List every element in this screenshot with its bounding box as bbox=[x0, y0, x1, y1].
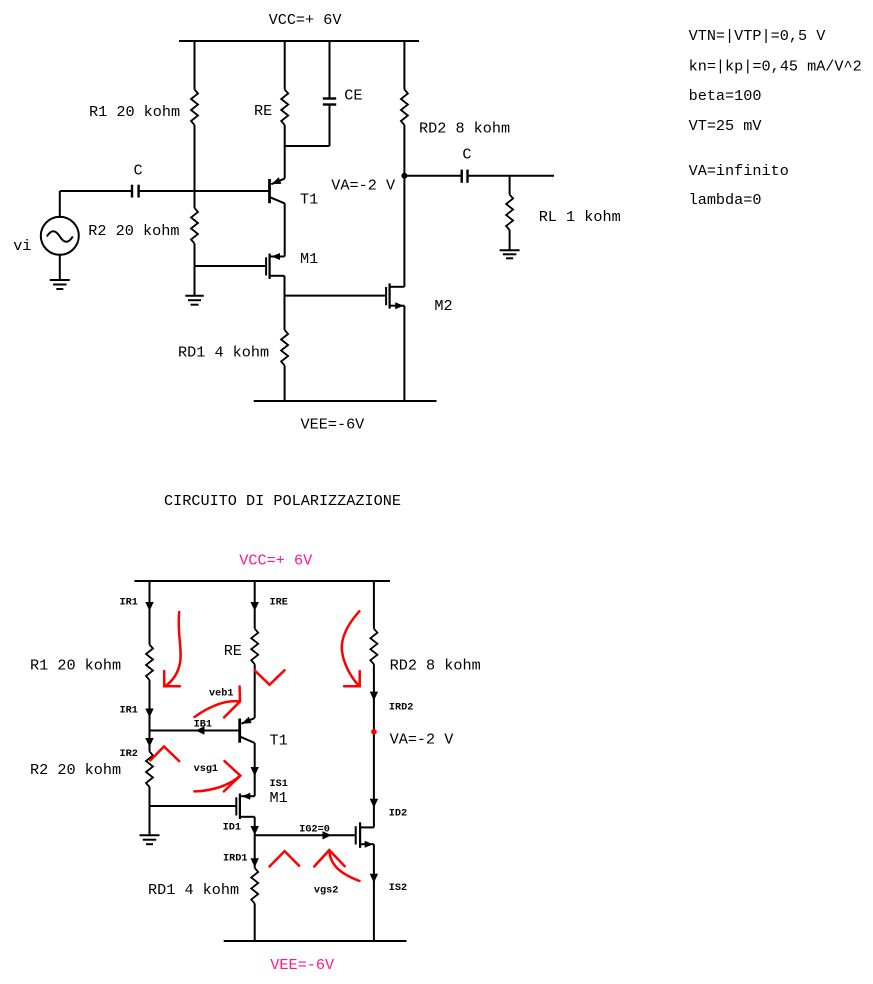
svg-text:VCC=+ 6V: VCC=+ 6V bbox=[269, 11, 343, 29]
svg-text:IS2: IS2 bbox=[389, 883, 407, 894]
svg-text:C: C bbox=[462, 146, 471, 164]
svg-text:IB1: IB1 bbox=[194, 720, 212, 731]
svg-text:VA=-2 V: VA=-2 V bbox=[331, 177, 396, 195]
svg-text:R1 20 kohm: R1 20 kohm bbox=[30, 657, 121, 675]
svg-text:ID1: ID1 bbox=[223, 823, 241, 834]
svg-text:M1: M1 bbox=[300, 250, 318, 268]
svg-text:IR1: IR1 bbox=[120, 598, 138, 609]
svg-text:VEE=-6V: VEE=-6V bbox=[270, 956, 335, 974]
svg-text:CE: CE bbox=[344, 87, 362, 105]
svg-text:VEE=-6V: VEE=-6V bbox=[301, 416, 366, 434]
svg-text:IG2=0: IG2=0 bbox=[299, 824, 330, 835]
svg-text:IR1: IR1 bbox=[120, 706, 138, 717]
svg-text:kn=|kp|=0,45 mA/V^2: kn=|kp|=0,45 mA/V^2 bbox=[689, 58, 862, 76]
svg-text:VT=25 mV: VT=25 mV bbox=[689, 117, 763, 135]
svg-text:IRE: IRE bbox=[270, 598, 288, 609]
svg-text:IRD1: IRD1 bbox=[223, 854, 247, 865]
svg-text:M1: M1 bbox=[270, 789, 288, 807]
svg-text:beta=100: beta=100 bbox=[689, 87, 762, 105]
svg-text:ID2: ID2 bbox=[389, 809, 407, 820]
svg-text:IR2: IR2 bbox=[120, 749, 138, 760]
svg-text:C: C bbox=[134, 162, 143, 180]
svg-text:IRD2: IRD2 bbox=[389, 703, 413, 714]
svg-text:RE: RE bbox=[224, 642, 242, 660]
svg-text:R1 20 kohm: R1 20 kohm bbox=[89, 103, 180, 121]
svg-text:T1: T1 bbox=[300, 191, 318, 209]
svg-text:R2 20 kohm: R2 20 kohm bbox=[88, 222, 179, 240]
svg-text:VCC=+ 6V: VCC=+ 6V bbox=[239, 552, 313, 570]
svg-text:RD1 4 kohm: RD1 4 kohm bbox=[178, 344, 269, 362]
svg-text:T1: T1 bbox=[270, 732, 288, 750]
svg-text:M2: M2 bbox=[434, 297, 452, 315]
svg-text:R2 20 kohm: R2 20 kohm bbox=[30, 761, 121, 779]
svg-text:RD1 4 kohm: RD1 4 kohm bbox=[148, 881, 239, 899]
svg-text:RD2 8 kohm: RD2 8 kohm bbox=[419, 120, 510, 138]
svg-text:VA=infinito: VA=infinito bbox=[689, 162, 789, 180]
svg-text:RL 1 kohm: RL 1 kohm bbox=[539, 208, 621, 226]
svg-text:VTN=|VTP|=0,5 V: VTN=|VTP|=0,5 V bbox=[689, 27, 827, 45]
svg-text:veb1: veb1 bbox=[209, 688, 233, 700]
svg-text:vgs2: vgs2 bbox=[314, 886, 338, 897]
svg-text:VA=-2 V: VA=-2 V bbox=[390, 731, 455, 749]
svg-text:CIRCUITO DI POLARIZZAZIONE: CIRCUITO DI POLARIZZAZIONE bbox=[164, 492, 401, 510]
svg-text:IS1: IS1 bbox=[270, 779, 288, 790]
svg-text:vi: vi bbox=[13, 237, 31, 255]
svg-text:RD2 8 kohm: RD2 8 kohm bbox=[390, 657, 481, 675]
svg-text:lambda=0: lambda=0 bbox=[689, 191, 762, 209]
svg-text:RE: RE bbox=[254, 102, 272, 120]
svg-text:vsg1: vsg1 bbox=[194, 764, 218, 775]
